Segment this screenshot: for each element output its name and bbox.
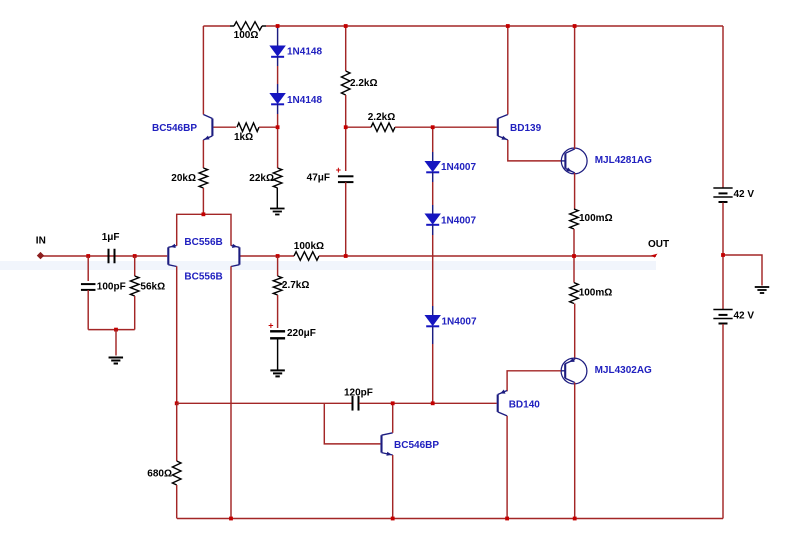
svg-text:1N4148: 1N4148 [287, 47, 322, 58]
node top rail junction A [276, 24, 280, 28]
svg-text:42 V: 42 V [734, 310, 755, 321]
node bottom rail D [573, 517, 577, 521]
wire 2.2k to BD139 base [395, 126, 497, 128]
wire Q1 emitter to 20k [202, 140, 204, 168]
wire 1k to diode node [259, 126, 278, 128]
svg-text:47μF: 47μF [307, 173, 330, 184]
wire 2.7k to 220uF [277, 295, 279, 328]
capacitor 47μF [338, 175, 354, 177]
svg-text:BC556B: BC556B [184, 237, 222, 248]
transistor Q4 MJL4302AG [561, 358, 587, 384]
wire diode chain D1 top [277, 26, 279, 46]
ground under 22k [270, 208, 285, 210]
wire D2 to base node [277, 104, 279, 114]
resistor 1kΩ [237, 123, 259, 132]
node bottom rail A [229, 517, 233, 521]
node bias upper B [344, 125, 348, 129]
svg-text:1N4148: 1N4148 [287, 95, 322, 106]
wire between batteries [722, 203, 724, 310]
node shunt ground tap [114, 328, 118, 332]
terminal OUT [651, 254, 657, 258]
wire 56k branch [134, 256, 136, 276]
wire shunt to ground [115, 330, 117, 356]
svg-text:100kΩ: 100kΩ [294, 241, 324, 252]
diode D1 1N4148 [270, 46, 285, 56]
node bottom rail B [391, 517, 395, 521]
node input shunt left [86, 254, 90, 258]
wire shunt bottom link [88, 329, 135, 331]
diode D2 1N4148 [270, 94, 285, 104]
transistor Q5 BD140 [497, 395, 499, 412]
svg-text:56kΩ: 56kΩ [140, 282, 165, 293]
capacitor 1μF [108, 249, 110, 264]
svg-text:1N4007: 1N4007 [442, 316, 477, 327]
svg-text:1kΩ: 1kΩ [234, 132, 253, 143]
node battery centre tap [721, 253, 725, 257]
wire 100m to MJL4302AG emitter [574, 304, 576, 360]
node input shunt right [133, 254, 137, 258]
terminal IN [37, 252, 44, 259]
svg-text:+: + [336, 165, 341, 175]
capacitor 100pF [81, 283, 96, 285]
node VAS wire A [391, 401, 395, 405]
capacitor 220μF [270, 330, 285, 332]
svg-text:BD140: BD140 [509, 399, 541, 410]
resistor 100kΩ [294, 252, 319, 261]
wire MJL4281AG collector to top rail [574, 26, 576, 149]
resistor 56kΩ [130, 276, 139, 296]
transistor Q3 MJL4281AG [561, 148, 587, 174]
svg-text:BC546BP: BC546BP [394, 440, 439, 451]
svg-text:20kΩ: 20kΩ [171, 173, 196, 184]
transistor Q7 BC556B lower-right [238, 247, 240, 264]
node output rail B [572, 254, 576, 258]
wire VAS node to 2.2k horizontal [346, 126, 371, 128]
wire 680 to bottom rail [176, 485, 178, 519]
resistor 2.7kΩ [273, 276, 282, 295]
wire Q8 emitter to bottom rail [392, 455, 394, 519]
node output rail A [344, 254, 348, 258]
svg-text:MJL4281AG: MJL4281AG [595, 155, 652, 166]
resistor 20kΩ [199, 168, 208, 188]
wire 100k to out node [319, 255, 656, 257]
node VAS collector tee [175, 401, 179, 405]
wire top rail left [203, 25, 230, 27]
svg-text:1μF: 1μF [102, 232, 120, 243]
wire BD140 emitter to MJL4302AG base [507, 371, 561, 391]
node bottom rail C [505, 517, 509, 521]
resistor 680Ω [172, 461, 181, 485]
wire 56k to bottom link [134, 296, 136, 330]
svg-text:100Ω: 100Ω [234, 30, 259, 41]
svg-text:2.2kΩ: 2.2kΩ [368, 112, 395, 123]
wire Q1 base to 1k [214, 126, 237, 128]
faint band [0, 261, 656, 270]
wire 20k to diff pair emitters [202, 188, 204, 214]
wire BD140 collector to bottom rail [506, 416, 508, 519]
svg-text:22kΩ: 22kΩ [249, 173, 274, 184]
transistor Q6 BC556B upper-left [167, 247, 169, 264]
ground battery centre [755, 286, 770, 288]
svg-text:120pF: 120pF [344, 388, 373, 399]
svg-text:2.7kΩ: 2.7kΩ [282, 280, 309, 291]
wire bias node to D3 [432, 127, 434, 152]
ground under 220uF [270, 369, 285, 371]
wire IN rail [40, 255, 167, 257]
resistor 100mΩ lower [570, 283, 579, 304]
svg-text:100pF: 100pF [97, 282, 126, 293]
wire VAS node to 680 [176, 403, 178, 461]
resistor 2.2kΩ horizontal [371, 123, 395, 132]
wire left collector down [176, 266, 178, 403]
wire D3 to D4 [432, 172, 434, 182]
svg-text:100mΩ: 100mΩ [579, 213, 613, 224]
svg-text:1N4007: 1N4007 [441, 162, 476, 173]
wire 100pF to bottom link [87, 290, 89, 330]
wire right collector down [230, 266, 232, 518]
node top rail junction B [344, 24, 348, 28]
node VAS wire B [431, 401, 435, 405]
wire MJL4281AG emitter to 100m [574, 173, 576, 209]
wire +42V battery branch right [722, 26, 724, 188]
resistor 2.2kΩ vertical [341, 71, 350, 95]
resistor 100mΩ upper [570, 209, 579, 229]
svg-text:BC546BP: BC546BP [152, 123, 197, 134]
battery B1 42V [713, 187, 732, 189]
svg-text:MJL4302AG: MJL4302AG [595, 365, 652, 376]
wire 100m to OUT rail [573, 229, 575, 256]
node bias upper C [431, 125, 435, 129]
wire top rail right [262, 25, 266, 27]
transistor Q1 BC546BP [211, 119, 213, 136]
diode D5 1N4007 [425, 316, 440, 326]
wire D5 to VAS collector line [432, 327, 434, 345]
node top rail junction D [573, 24, 577, 28]
svg-text:OUT: OUT [648, 239, 669, 250]
wire D4 to D5 [432, 225, 434, 236]
wire bottom rail [177, 518, 723, 520]
wire 100pF branch [87, 256, 89, 281]
wire top rail to 2.2k vertical [345, 26, 347, 71]
wire 22k to ground [276, 188, 278, 208]
wire feedback / output rail [240, 255, 294, 257]
wire diff emitters rail [177, 214, 231, 245]
battery B2 42V [713, 309, 732, 311]
wire VAS rail to 120pF [177, 402, 352, 404]
wire base node down to 22k [277, 127, 279, 168]
svg-text:100mΩ: 100mΩ [579, 288, 613, 299]
diode D4 1N4007 [425, 214, 440, 224]
wire D1 to D2 [277, 57, 279, 67]
diode D3 1N4007 [425, 162, 440, 172]
node feedback input [276, 254, 280, 258]
transistor Q2 BD139 [497, 119, 499, 136]
capacitor 120pF [352, 396, 354, 411]
wire top-left drop to Q1 collector [202, 26, 204, 115]
svg-text:220μF: 220μF [287, 328, 316, 339]
wire Q8 collector up [392, 403, 394, 433]
wire BD139 collector to top rail [507, 26, 509, 115]
wire 220uF to ground [277, 338, 279, 369]
node top rail junction C [506, 24, 510, 28]
wire BD139 emitter to MJL4281AG base [508, 140, 562, 161]
wire 47uF to feedback rail [345, 182, 347, 256]
svg-text:IN: IN [36, 236, 46, 247]
wire 2.2k to VAS node [345, 95, 347, 171]
wire node to 2.7k [277, 256, 279, 276]
svg-text:680Ω: 680Ω [147, 469, 172, 480]
transistor Q8 BC546BP lower [380, 435, 382, 452]
svg-text:2.2kΩ: 2.2kΩ [350, 78, 377, 89]
wire -42V battery to bottom rail [722, 324, 724, 519]
wire battery centre tap to ground [723, 255, 762, 286]
wire 120pF to VAS out [359, 402, 497, 404]
resistor 100Ω [234, 22, 262, 31]
ground input shunt [109, 357, 124, 359]
node bias upper A [276, 125, 280, 129]
node diff emitter tap [202, 212, 206, 216]
svg-text:42 V: 42 V [734, 189, 755, 200]
wire MJL4302AG collector to bottom rail [574, 383, 576, 519]
wire comp branch to Q8 base [324, 403, 380, 444]
svg-text:BD139: BD139 [510, 123, 542, 134]
svg-text:BC556B: BC556B [184, 272, 222, 283]
wire output to lower 100m [573, 256, 575, 283]
svg-text:1N4007: 1N4007 [441, 216, 476, 227]
svg-text:+: + [268, 320, 273, 330]
resistor 22kΩ [273, 168, 282, 188]
